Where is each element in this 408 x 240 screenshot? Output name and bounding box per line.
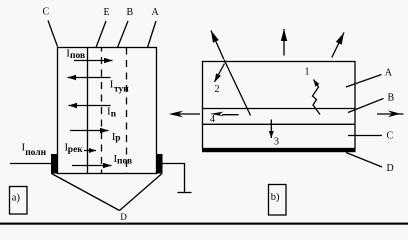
current label I_rek <box>65 141 84 155</box>
svg-text:B: B <box>127 7 134 18</box>
layer D (metal contact, thick black) <box>202 148 356 152</box>
depletion boundary at E (dashed vertical) <box>101 48 103 174</box>
svg-text:p: p <box>115 133 120 143</box>
arrow I_rek (rightwards, short) <box>84 150 96 152</box>
svg-text:C: C <box>387 131 394 142</box>
internal ray to surface <box>224 60 251 116</box>
svg-text:пов: пов <box>117 157 132 167</box>
leader line D <box>346 153 382 168</box>
ground <box>178 192 192 194</box>
depletion boundary at B (dashed vertical) <box>126 48 128 174</box>
current label I_n <box>107 106 117 120</box>
wire left terminal <box>10 163 51 165</box>
leader line B <box>348 99 384 113</box>
current label I_tun <box>110 79 130 95</box>
current label I_poln <box>22 141 47 158</box>
svg-text:A: A <box>152 7 160 18</box>
svg-text:D: D <box>387 163 394 174</box>
leader line B <box>118 21 129 48</box>
layer boundary A/B <box>203 108 356 110</box>
left ohmic contact (black) <box>51 154 58 174</box>
svg-text:B: B <box>388 93 395 104</box>
funnel right edge <box>120 174 163 211</box>
leader line A <box>346 75 382 88</box>
svg-text:тун: тун <box>114 85 129 95</box>
emitted light arrow (leftwards, out of diode a) <box>176 113 200 115</box>
current label I_pov (top) <box>66 47 85 61</box>
current label I_pov (bottom) <box>114 153 133 167</box>
arrowhead of emitted light arrow <box>169 111 183 118</box>
arrow 4 (waveguided ray, leftwards) <box>222 114 239 116</box>
svg-text:b): b) <box>271 192 280 203</box>
junction boundary (solid vertical) <box>87 48 89 174</box>
wire right terminal <box>163 164 185 193</box>
device body (diagram a) <box>58 48 157 174</box>
escaping ray arrow (up-left) <box>211 31 224 60</box>
arrow 3 (absorbed ray, downwards) <box>270 120 272 139</box>
arrowhead of arrow 4 <box>210 112 224 117</box>
svg-text:3: 3 <box>274 136 279 147</box>
leader line C <box>348 135 382 137</box>
leader line A <box>148 21 157 48</box>
label box b) <box>269 185 287 216</box>
escaping ray arrow (vertical) <box>283 29 285 56</box>
svg-text:1: 1 <box>305 67 310 78</box>
arrow row3 (leftwards) <box>69 105 111 107</box>
arrow 1 (photon zigzag) <box>313 80 321 115</box>
svg-text:4: 4 <box>210 114 215 125</box>
svg-text:пов: пов <box>70 51 85 61</box>
svg-text:2: 2 <box>215 84 220 95</box>
leader line C <box>48 21 58 47</box>
svg-text:C: C <box>43 7 50 18</box>
layer boundary B/C <box>203 123 356 125</box>
arrow row4 (rightwards) <box>70 130 109 132</box>
leader line E <box>96 21 106 48</box>
layered structure (diagram b) <box>203 62 356 149</box>
svg-text:a): a) <box>12 193 21 204</box>
funnel left edge <box>52 174 120 211</box>
current label I_p <box>112 131 121 143</box>
svg-text:A: A <box>385 67 393 78</box>
svg-text:E: E <box>104 7 110 18</box>
arrow I_pov (rightwards) <box>74 60 113 62</box>
arrow row2 (leftwards) <box>68 77 111 79</box>
svg-text:рек: рек <box>68 145 84 155</box>
arrow row6 (rightwards) <box>72 165 112 167</box>
label box a) <box>10 187 28 215</box>
svg-text:n: n <box>111 110 117 120</box>
bottom separator rule <box>0 223 408 225</box>
escaping ray arrow (up-right) <box>332 33 344 58</box>
guided emission arrow (rightwards, out of edge) <box>377 113 404 115</box>
arrowhead of guided emission arrow <box>388 110 401 117</box>
svg-text:полн: полн <box>25 148 46 158</box>
arrow 2 (totally reflected ray) <box>215 64 225 83</box>
right ohmic contact (black) <box>157 154 163 174</box>
svg-text:D: D <box>120 212 127 222</box>
